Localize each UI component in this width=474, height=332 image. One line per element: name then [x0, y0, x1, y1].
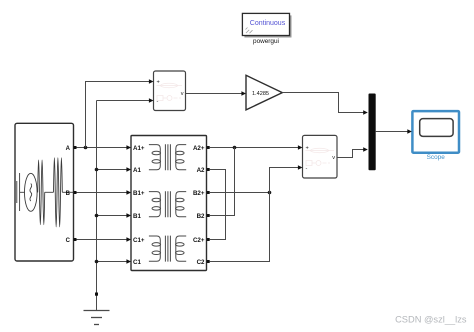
gain K1 — [246, 75, 282, 110]
wire mux output to scope — [376, 131, 408, 133]
node A junction — [84, 146, 88, 150]
svg-text:+: + — [157, 80, 160, 86]
wire VM2 v output to mux input 2 — [337, 150, 364, 158]
svg-text:B: B — [66, 191, 71, 197]
svg-text:B1+: B1+ — [133, 190, 145, 197]
powergui block — [242, 13, 289, 35]
wire node A2 down to B2 — [210, 148, 235, 216]
wire gain output to mux input 1 — [282, 93, 364, 113]
linear transformer T1 — [131, 136, 207, 271]
wire source A to transformer A1+ — [77, 147, 129, 149]
transformer right port marks — [207, 146, 210, 263]
node B2 junction — [268, 191, 272, 195]
node C1 junction — [95, 260, 99, 264]
scope label — [427, 154, 446, 161]
wire C2 to node B2 vertical — [210, 193, 270, 262]
wire source B to transformer B1+ — [77, 192, 129, 194]
svg-text:-: - — [306, 166, 308, 172]
svg-text:+: + — [306, 146, 309, 152]
svg-text:A1+: A1+ — [133, 145, 145, 152]
wire transformer A2 to C2+ — [210, 170, 226, 240]
node B1 junction — [95, 214, 99, 218]
wire transformer B2+ to node B2 — [210, 192, 270, 194]
arrowheads at block inputs — [126, 79, 412, 264]
svg-text:Continuous: Continuous — [250, 20, 286, 27]
wire neutral to C1 — [97, 261, 129, 263]
svg-text:1.4285: 1.4285 — [252, 91, 269, 97]
wire neutral to B1 — [97, 215, 129, 217]
svg-text:B2+: B2+ — [193, 190, 205, 197]
svg-text:A: A — [66, 146, 71, 152]
svg-text:A1: A1 — [133, 167, 141, 174]
voltage measurement VM2 — [303, 135, 338, 178]
svg-text:C1: C1 — [133, 259, 141, 266]
wire neutral to A1 — [97, 169, 129, 171]
svg-text:powergui: powergui — [253, 38, 279, 45]
powergui block shadow — [244, 15, 291, 37]
transformer winding pair B — [149, 191, 186, 217]
svg-text:B1: B1 — [133, 213, 141, 220]
svg-text:v: v — [181, 91, 184, 97]
svg-text:v: v — [332, 155, 335, 161]
svg-text:C2+: C2+ — [193, 237, 205, 244]
wire VM1 v output to gain — [186, 93, 243, 95]
powergui label — [253, 38, 279, 45]
three-phase programmable voltage source V1 — [15, 123, 77, 261]
ground G1 — [84, 293, 110, 325]
mux M1 — [369, 94, 376, 171]
svg-text:A2: A2 — [197, 167, 205, 174]
watermark — [395, 315, 467, 325]
svg-text:CSDN @szl__lzs: CSDN @szl__lzs — [395, 315, 467, 325]
svg-text:C: C — [66, 238, 71, 244]
transformer winding pair C — [149, 236, 186, 262]
node A1 junction — [95, 168, 99, 172]
svg-text:-: - — [157, 99, 159, 105]
wire node B2 up to VM2 minus — [270, 168, 300, 193]
scope block — [412, 111, 459, 153]
wire node A up to VM1 plus — [86, 82, 151, 148]
transformer winding pair A — [149, 144, 186, 170]
wire transformer A2+ to VM2 plus — [210, 147, 299, 149]
wire source C to transformer C1+ — [77, 239, 129, 241]
svg-text:B2: B2 — [197, 213, 205, 220]
svg-text:C1+: C1+ — [133, 237, 145, 244]
voltage measurement VM1 — [154, 71, 186, 111]
svg-text:C2: C2 — [197, 259, 205, 266]
wire neutral vertical to ground — [97, 101, 151, 311]
svg-text:Scope: Scope — [427, 154, 446, 161]
svg-text:A2+: A2+ — [193, 145, 205, 152]
node A2 junction — [233, 146, 237, 150]
